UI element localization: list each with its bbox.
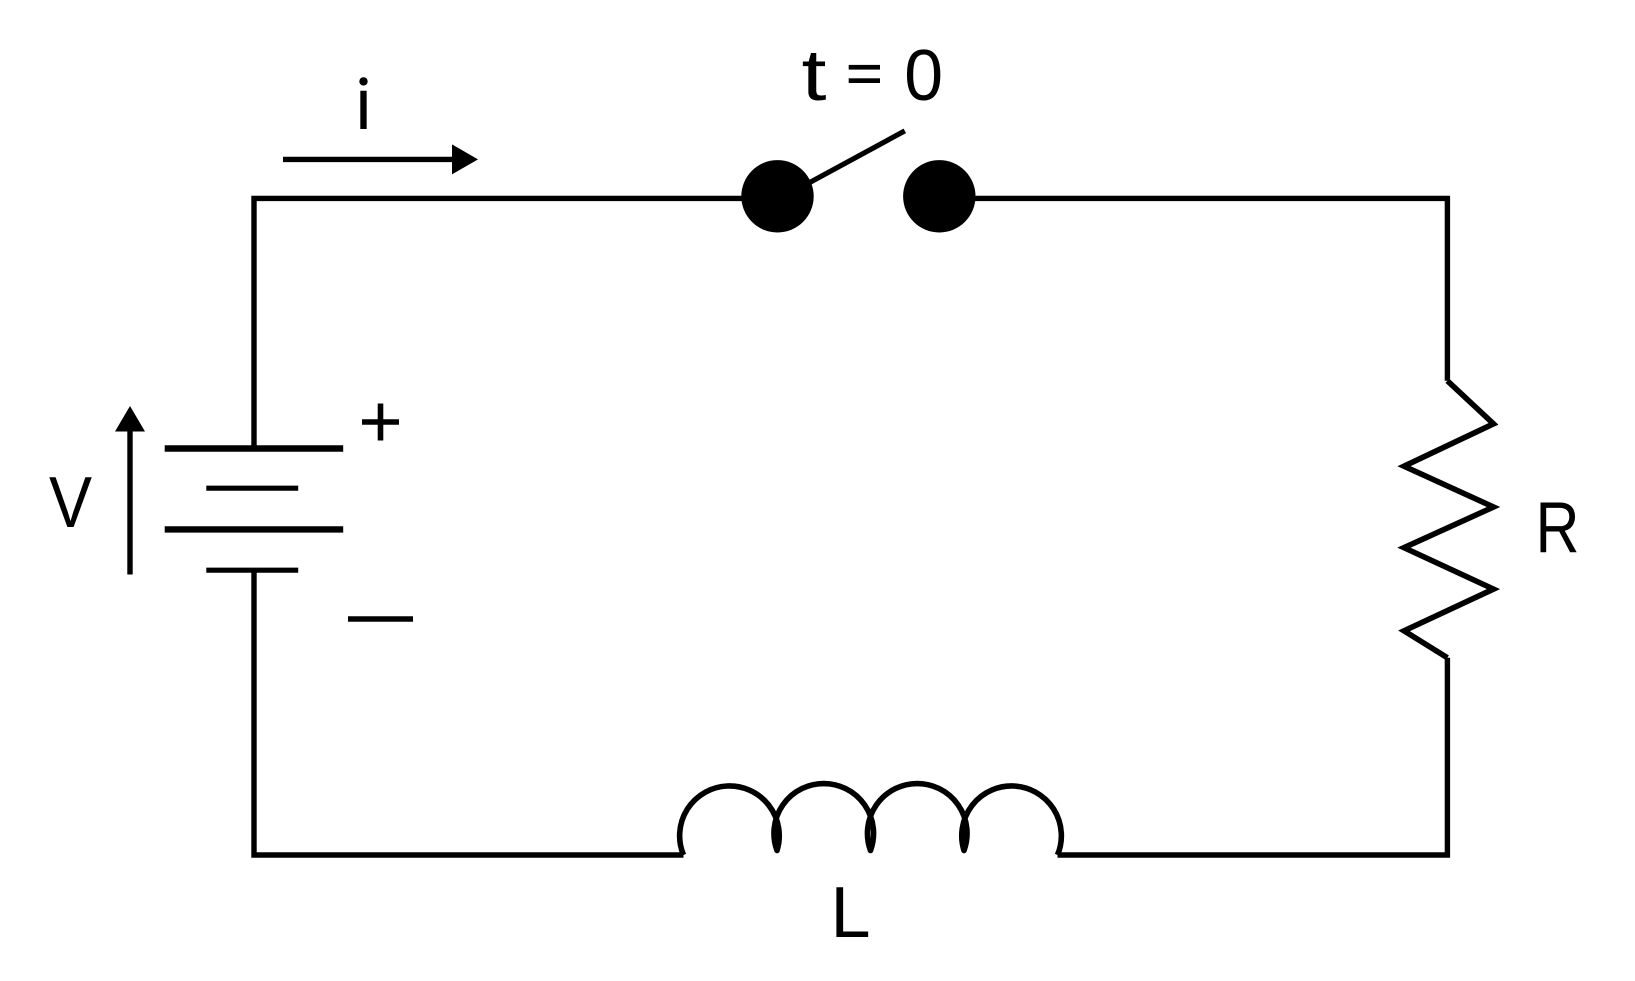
wire: right vertical below resistor + bottom-right horizontal (1058, 658, 1448, 855)
plus polarity mark (362, 404, 399, 441)
i arrow (current direction) (283, 157, 453, 162)
switch contact left (filled node) (741, 160, 813, 232)
battery V: plate 3 (long) (165, 526, 344, 532)
svg-text:R: R (1536, 488, 1580, 568)
svg-text:V: V (49, 463, 92, 543)
V arrow (voltage direction) (127, 430, 132, 575)
svg-text:0: 0 (904, 36, 943, 116)
wire: bottom-left horizontal + left vertical up to battery (254, 570, 684, 855)
svg-text:t: t (802, 36, 827, 116)
wire: left vertical + top-left horizontal (254, 198, 778, 448)
battery V: plate 1 (long, top) (165, 445, 344, 451)
minus polarity mark (348, 616, 413, 621)
battery V: plate 2 (short) (206, 486, 298, 491)
svg-text:ı: ı (353, 65, 373, 145)
resistor R (zigzag) (1404, 381, 1494, 658)
battery V: plate 4 (short, bottom) (206, 568, 298, 573)
switch contact right (filled node) (903, 160, 975, 232)
switch lever (open blade) (810, 131, 905, 183)
wire: top-right horizontal + right vertical down to resistor (939, 198, 1447, 380)
svg-text:L: L (830, 873, 870, 953)
inductor L (4 humps) (680, 784, 1062, 855)
